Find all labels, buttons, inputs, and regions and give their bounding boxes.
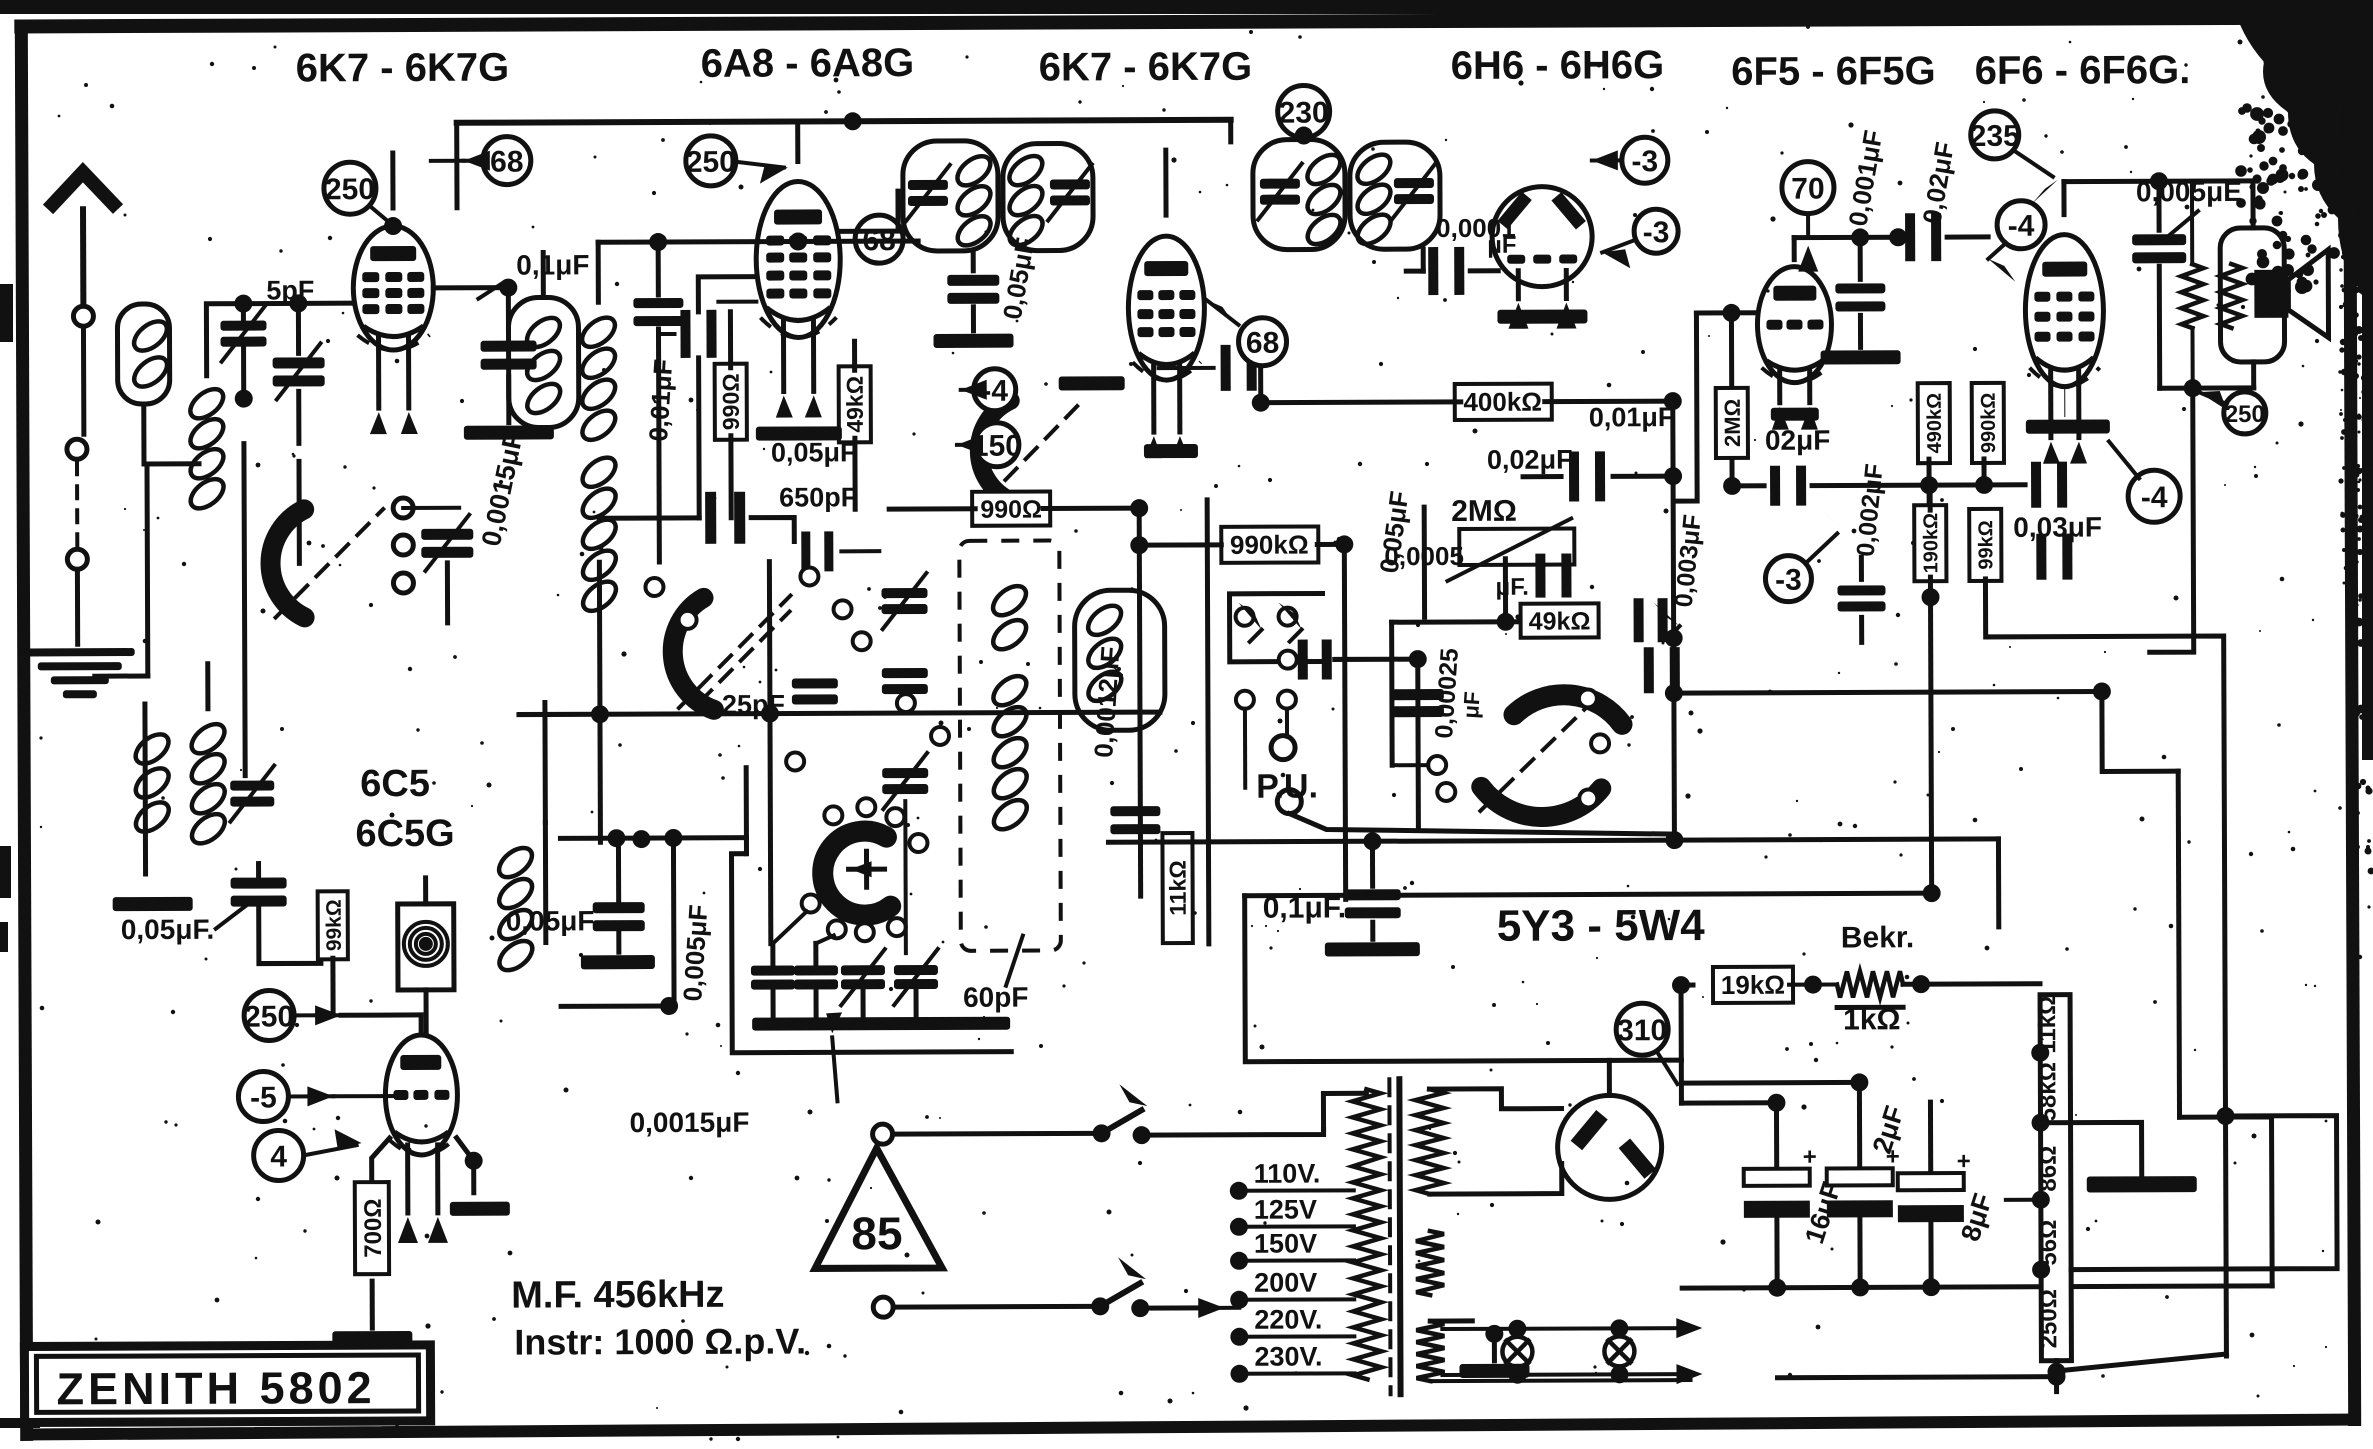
svg-text:85: 85 (851, 1207, 902, 1259)
svg-text:6K7 - 6K7G: 6K7 - 6K7G (1039, 45, 1253, 90)
svg-text:0,05μF: 0,05μF (506, 905, 595, 936)
svg-text:220V.: 220V. (1254, 1304, 1322, 1334)
svg-text:110V.: 110V. (1254, 1158, 1321, 1188)
svg-text:6K7 - 6K7G: 6K7 - 6K7G (296, 46, 510, 91)
svg-text:49kΩ: 49kΩ (842, 376, 868, 433)
svg-text:-5: -5 (250, 1081, 277, 1114)
svg-text:49kΩ: 49kΩ (1529, 607, 1591, 635)
svg-text:6F6 - 6F6G.: 6F6 - 6F6G. (1975, 48, 2191, 93)
svg-text:235: 235 (1970, 120, 2020, 153)
svg-text:310: 310 (1617, 1014, 1667, 1047)
svg-text:0,005μF: 0,005μF (677, 904, 713, 1003)
svg-text:0,01μF: 0,01μF (1589, 402, 1675, 432)
svg-text:+: + (1803, 1144, 1817, 1171)
svg-text:1kΩ: 1kΩ (1843, 1003, 1901, 1036)
svg-text:68: 68 (1246, 327, 1280, 360)
svg-text:200V: 200V (1254, 1268, 1317, 1298)
svg-text:M.F. 456kHz: M.F. 456kHz (511, 1274, 724, 1317)
svg-text:990kΩ: 990kΩ (1230, 530, 1309, 560)
svg-text:990Ω: 990Ω (980, 496, 1042, 524)
svg-text:490kΩ: 490kΩ (1924, 393, 1946, 454)
svg-text:0,02μF: 0,02μF (1487, 445, 1573, 475)
svg-text:-3: -3 (1643, 216, 1670, 249)
svg-text:56Ω: 56Ω (2035, 1220, 2062, 1266)
svg-text:μF.: μF. (1495, 574, 1528, 601)
svg-text:250Ω: 250Ω (2035, 1289, 2062, 1348)
svg-text:150V: 150V (1254, 1229, 1317, 1259)
svg-text:86Ω: 86Ω (2035, 1146, 2062, 1192)
svg-text:11kΩ: 11kΩ (1165, 860, 1191, 916)
svg-text:990Ω: 990Ω (718, 373, 744, 430)
svg-text:6H6 - 6H6G: 6H6 - 6H6G (1451, 43, 1665, 88)
svg-text:μF: μF (1487, 232, 1516, 259)
svg-text:6C5: 6C5 (360, 763, 430, 805)
svg-text:230: 230 (1279, 96, 1329, 129)
svg-text:-3: -3 (1775, 564, 1802, 597)
svg-text:70: 70 (1791, 173, 1825, 206)
svg-text:6F5 - 6F5G: 6F5 - 6F5G (1731, 49, 1936, 94)
svg-text:2MΩ: 2MΩ (1720, 399, 1745, 447)
svg-text:230V.: 230V. (1254, 1341, 1322, 1371)
svg-text:-4: -4 (2141, 481, 2168, 514)
svg-text:2MΩ: 2MΩ (1451, 495, 1517, 528)
svg-text:125V: 125V (1254, 1195, 1317, 1225)
svg-text:400kΩ: 400kΩ (1463, 387, 1542, 417)
svg-text:ZENITH 5802: ZENITH 5802 (56, 1362, 375, 1414)
svg-text:250: 250 (2225, 401, 2265, 428)
svg-text:990kΩ: 990kΩ (1978, 393, 2000, 454)
svg-text:Bekr.: Bekr. (1841, 921, 1915, 954)
svg-text:6C5G: 6C5G (355, 813, 454, 855)
svg-text:250: 250 (244, 1000, 294, 1033)
svg-text:Instr: 1000 Ω.p.V.: Instr: 1000 Ω.p.V. (514, 1320, 806, 1362)
svg-text:0,05μF.: 0,05μF. (121, 914, 215, 945)
svg-text:02μF: 02μF (1765, 425, 1831, 456)
svg-text:68: 68 (490, 146, 524, 179)
svg-text:0,005μE: 0,005μE (2136, 176, 2242, 207)
svg-text:-3: -3 (1631, 145, 1658, 178)
svg-text:0,1μF: 0,1μF (516, 249, 589, 280)
svg-text:58kΩ: 58kΩ (2034, 1062, 2061, 1121)
svg-text:P.U.: P.U. (1256, 767, 1318, 805)
svg-text:190kΩ: 190kΩ (1920, 513, 1942, 574)
svg-text:60pF: 60pF (963, 982, 1028, 1013)
svg-text:-4: -4 (2008, 210, 2035, 243)
svg-text:6A8 - 6A8G: 6A8 - 6A8G (701, 41, 915, 86)
svg-text:μF: μF (1458, 691, 1485, 719)
svg-text:0,05μF: 0,05μF (771, 437, 857, 467)
svg-text:5Y3 - 5W4: 5Y3 - 5W4 (1497, 901, 1706, 951)
svg-text:0,03μF: 0,03μF (2013, 511, 2102, 542)
svg-text:700Ω: 700Ω (360, 1198, 387, 1257)
svg-text:99kΩ: 99kΩ (1975, 520, 1997, 569)
svg-text:0,0015μF: 0,0015μF (629, 1107, 749, 1138)
svg-text:250: 250 (325, 173, 375, 206)
svg-text:99kΩ: 99kΩ (323, 899, 346, 951)
svg-text:250: 250 (686, 146, 736, 179)
svg-text:4: 4 (270, 1140, 287, 1173)
svg-text:+: + (1957, 1148, 1971, 1175)
svg-text:19kΩ: 19kΩ (1721, 970, 1785, 1000)
svg-text:650pF: 650pF (779, 482, 857, 512)
